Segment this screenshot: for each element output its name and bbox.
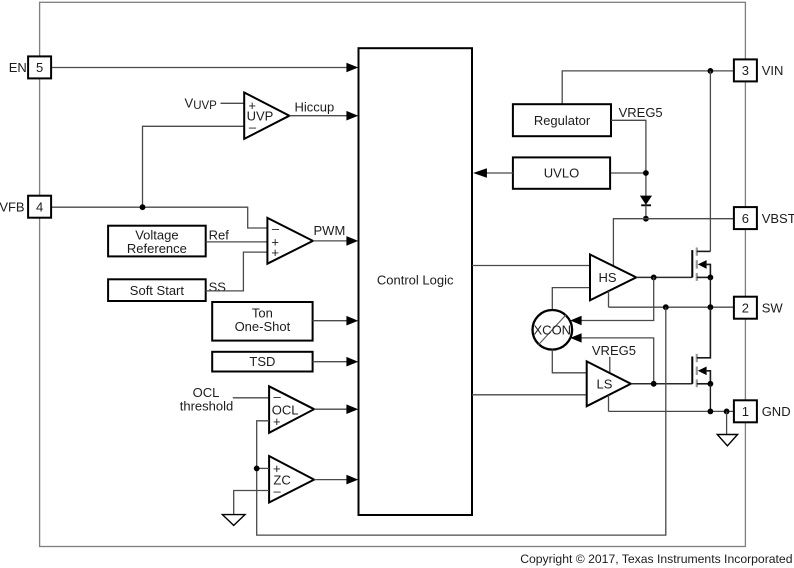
arrowhead PWM into Control Logic	[346, 236, 358, 246]
wire OCL output to Control Logic	[314, 408, 347, 410]
svg-text:UVP: UVP	[193, 100, 217, 112]
ground at GND pin	[717, 435, 737, 446]
pin VFB 4	[0, 196, 51, 218]
svg-text:4: 4	[36, 199, 43, 214]
wire ZC output to Control Logic	[314, 479, 347, 481]
node GND/ground-stub junction	[724, 409, 730, 415]
node sense/ZC junction	[254, 466, 260, 472]
svg-text:VREG5: VREG5	[592, 343, 636, 358]
arrowhead TSD into Control Logic	[346, 357, 358, 367]
wire V_UVP to UVP non-inverting input	[221, 102, 245, 104]
wire HS gate node to XCON upper input	[581, 277, 654, 320]
wire VREG5 stub into LS driver	[609, 357, 611, 373]
pin VBST 6	[734, 207, 794, 229]
wire VBST to HS driver supply	[613, 219, 734, 266]
svg-text:V: V	[185, 96, 194, 111]
wire UVLO output to Control Logic	[486, 172, 513, 174]
ground below ZC	[222, 515, 245, 526]
svg-text:+: +	[271, 245, 279, 260]
wire Control Logic to HS driver input	[472, 265, 590, 267]
wire SW rail	[609, 306, 734, 308]
svg-text:1: 1	[742, 404, 749, 419]
svg-text:Copyright © 2017, Texas Instru: Copyright © 2017, Texas Instruments Inco…	[520, 552, 792, 566]
node HS gate junction	[651, 275, 657, 281]
wire VIN to Regulator input	[562, 71, 734, 104]
wire HS output to high-side FET gate	[636, 276, 692, 278]
diode bootstrap	[641, 196, 651, 219]
wire SW sense line to OCL and ZC inputs	[257, 307, 666, 535]
wire LS output to low-side FET gate	[631, 383, 692, 385]
wire HS driver return to SW	[608, 291, 610, 307]
svg-text:XCON: XCON	[534, 323, 572, 338]
svg-text:GND: GND	[762, 404, 791, 419]
node VIN junction	[708, 68, 714, 74]
arrowhead EN into Control Logic	[346, 63, 358, 73]
svg-text:+: +	[273, 414, 281, 429]
wire VFB node up to UVP inverting input	[143, 126, 245, 207]
svg-text:6: 6	[742, 211, 749, 226]
pin GND 1	[734, 400, 791, 422]
driver HS	[590, 255, 636, 301]
label OCL threshold	[180, 385, 233, 414]
wire VIN down to high-side FET drain	[709, 71, 711, 252]
wire XCON to HS driver lower input	[552, 288, 590, 311]
wire sense to ZC non-inverting input	[257, 467, 269, 469]
comparator ZC	[269, 456, 314, 503]
svg-text:Soft Start: Soft Start	[130, 283, 185, 298]
node LS gate junction	[651, 381, 657, 387]
svg-text:PWM: PWM	[314, 223, 346, 238]
box Ton One-Shot	[212, 302, 312, 341]
svg-text:Control Logic: Control Logic	[377, 272, 454, 287]
box Control Logic	[359, 48, 473, 515]
arrowhead into XCON upper	[570, 316, 581, 325]
wire SS to PWM second non-inverting input	[206, 252, 268, 291]
label V_UVP	[185, 96, 218, 113]
svg-text:Regulator: Regulator	[534, 113, 591, 128]
svg-text:UVLO: UVLO	[544, 166, 579, 181]
svg-text:SW: SW	[762, 300, 784, 315]
wire LS gate node to XCON lower input	[581, 338, 654, 384]
box TSD	[212, 352, 312, 372]
svg-text:HS: HS	[599, 270, 617, 285]
wire stub to ground at GND pin	[726, 411, 728, 434]
wire LS driver return to GND	[608, 395, 610, 411]
wire VFB node to PWM inverting input	[51, 207, 267, 228]
svg-text:TSD: TSD	[249, 354, 275, 369]
svg-text:2: 2	[742, 300, 749, 315]
transistor high-side FET	[692, 248, 713, 308]
comparator OCL	[269, 386, 314, 433]
node SW/sense junction	[663, 304, 669, 310]
node SW/FET junction	[708, 304, 714, 310]
pin SW 2	[734, 297, 783, 319]
comparator UVP	[244, 93, 289, 139]
svg-text:Ref: Ref	[209, 227, 230, 242]
svg-text:VREG5: VREG5	[619, 105, 663, 120]
wire XCON to LS driver upper input	[552, 350, 586, 373]
svg-text:VIN: VIN	[762, 63, 784, 78]
pin VIN 3	[734, 59, 783, 81]
arrowhead Ton into Control Logic	[346, 316, 358, 326]
svg-text:threshold: threshold	[180, 399, 233, 414]
wire ZC inverting input to ground	[234, 491, 269, 515]
box Soft Start	[108, 279, 206, 301]
svg-text:LS: LS	[597, 377, 613, 392]
arrowhead Hiccup into Control Logic	[346, 111, 358, 121]
svg-text:SS: SS	[209, 279, 227, 294]
wire Regulator output VREG5 down to diode	[611, 120, 646, 196]
wire Ton One-Shot output to Control Logic	[313, 320, 348, 322]
wire OCL threshold to OCL inverting input	[233, 397, 269, 399]
wire PWM output to Control Logic	[313, 240, 348, 242]
svg-text:One-Shot: One-Shot	[235, 319, 291, 334]
box Regulator	[513, 104, 611, 136]
arrowhead UVLO into Control Logic	[473, 168, 487, 178]
svg-text:VBST: VBST	[762, 211, 794, 226]
box Voltage Reference	[108, 226, 206, 257]
transistor low-side FET	[692, 307, 713, 411]
node GND/FET junction	[708, 409, 714, 415]
node VREG5/UVLO junction	[643, 170, 649, 176]
box UVLO	[513, 157, 610, 188]
svg-text:–: –	[274, 483, 282, 498]
driver LS	[587, 361, 631, 406]
arrowhead into XCON lower	[570, 333, 581, 342]
wire TSD output to Control Logic	[313, 361, 348, 363]
svg-text:–: –	[249, 120, 257, 135]
wire GND rail	[609, 410, 734, 412]
arrowhead ZC into Control Logic	[346, 475, 358, 485]
svg-text:Reference: Reference	[127, 241, 187, 256]
wire Hiccup output to Control Logic	[289, 115, 347, 117]
wire Ref to PWM first non-inverting input	[206, 241, 268, 243]
svg-text:EN: EN	[9, 60, 27, 75]
node diode/VBST junction	[643, 216, 649, 222]
pin EN 5	[9, 56, 51, 78]
svg-text:3: 3	[742, 63, 749, 78]
svg-text:5: 5	[36, 60, 43, 75]
wire Control Logic to LS driver input	[472, 394, 587, 396]
comparator PWM	[267, 218, 313, 264]
svg-text:VFB: VFB	[0, 199, 25, 214]
svg-text:Hiccup: Hiccup	[295, 99, 335, 114]
wire UVLO to VREG5 rail	[610, 172, 646, 174]
arrowhead OCL into Control Logic	[346, 404, 358, 414]
gate XCON	[533, 310, 573, 350]
node VFB junction	[140, 204, 146, 210]
wire EN to Control Logic	[51, 67, 347, 69]
